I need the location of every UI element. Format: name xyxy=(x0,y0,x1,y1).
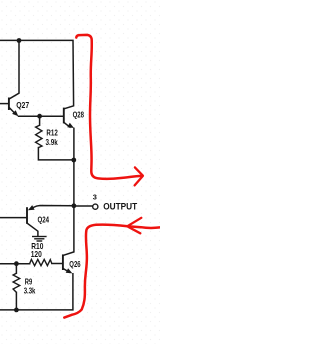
svg-text:OUTPUT: OUTPUT xyxy=(103,202,138,212)
svg-text:Q28: Q28 xyxy=(73,111,85,120)
svg-text:R9: R9 xyxy=(25,277,33,286)
svg-text:R12: R12 xyxy=(46,128,58,137)
svg-text:Q26: Q26 xyxy=(69,260,81,269)
svg-text:120: 120 xyxy=(31,250,42,259)
svg-text:3: 3 xyxy=(93,193,97,202)
svg-text:3.3k: 3.3k xyxy=(24,287,36,296)
svg-text:Q24: Q24 xyxy=(38,215,50,224)
svg-text:3.9k: 3.9k xyxy=(46,138,59,147)
svg-text:Q27: Q27 xyxy=(16,101,29,110)
